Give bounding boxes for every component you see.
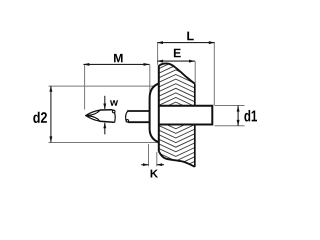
dimension M <box>83 54 149 66</box>
dimension d2 <box>33 86 52 143</box>
extension line d1 top <box>215 105 245 107</box>
dimension L <box>157 32 215 44</box>
flange (rivet head) <box>150 84 159 143</box>
mandrel stem piece 2 <box>126 111 150 122</box>
extension line M right <box>149 64 151 100</box>
head top edge <box>100 109 111 111</box>
head bottom edge <box>100 121 114 122</box>
extension line K left <box>148 144 150 166</box>
dimension w arrows <box>103 96 118 135</box>
extension line d2 bottom <box>49 142 158 144</box>
extension line E right <box>194 61 196 83</box>
block right edge lower <box>194 125 196 167</box>
extension line M left <box>84 64 86 109</box>
mandrel head (left piece) <box>86 110 116 123</box>
extension line d1 bottom <box>215 125 245 127</box>
dimension K (outside arrows) <box>141 163 164 177</box>
break curl right edge <box>111 109 113 111</box>
hatch upper block <box>159 52 195 121</box>
dimension d1 <box>237 106 257 126</box>
extension line L right <box>213 43 215 106</box>
upper facet petal <box>86 110 101 116</box>
block right edge upper <box>194 83 196 105</box>
extension line L/E left <box>157 43 159 65</box>
block left edge <box>158 65 160 152</box>
block top wave <box>159 63 195 83</box>
extension line d2 top <box>49 85 154 87</box>
hatch lower block <box>159 115 195 179</box>
rivet body tube <box>159 106 213 125</box>
dimension E <box>157 49 195 63</box>
lower facet petal <box>86 116 100 122</box>
extension line K right <box>156 152 158 166</box>
block bottom wave <box>159 152 195 167</box>
